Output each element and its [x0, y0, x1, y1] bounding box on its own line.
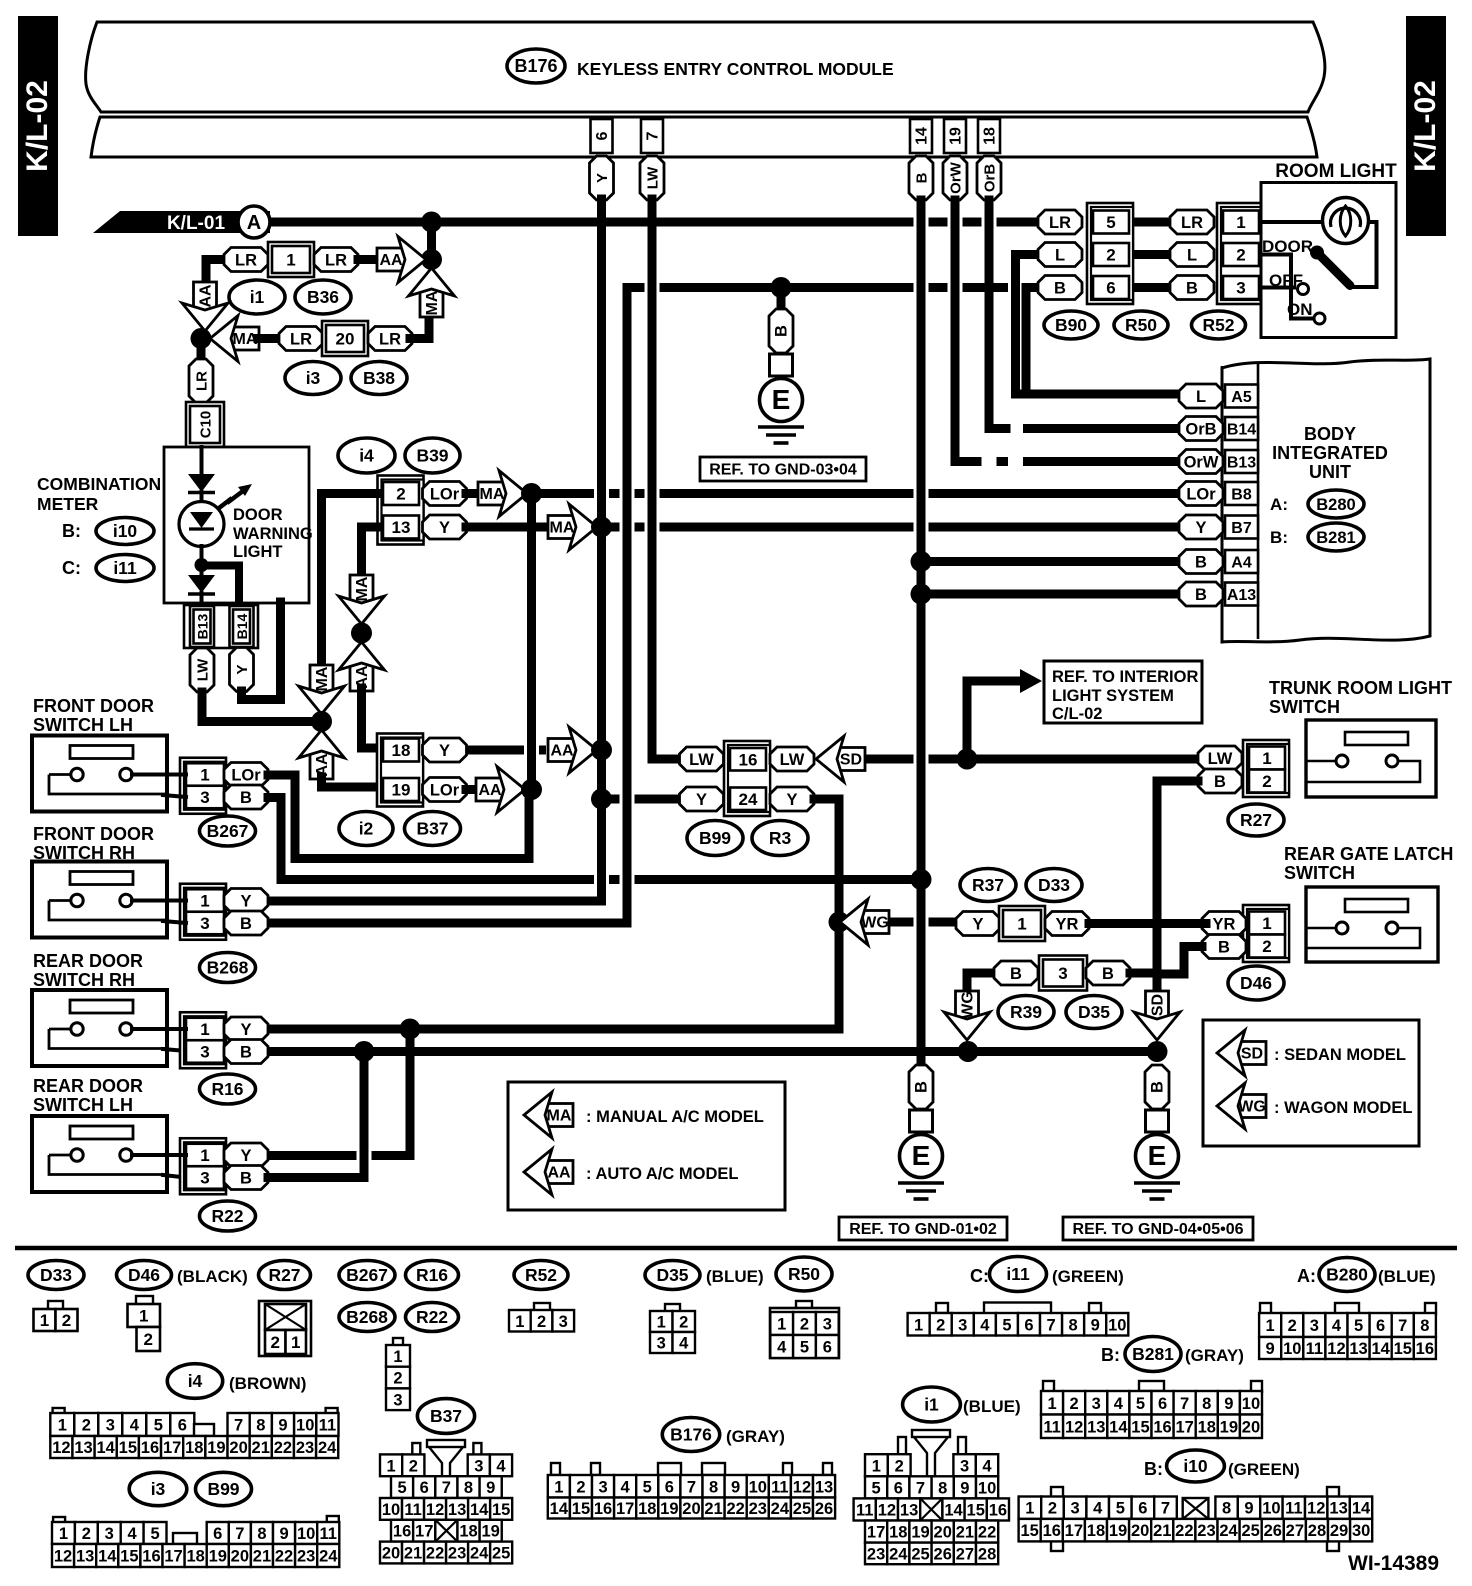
wire pin19 OrW vertical [955, 200, 972, 462]
svg-text:1: 1 [387, 1457, 396, 1475]
junction dot [591, 789, 612, 810]
svg-text:1: 1 [1017, 915, 1026, 934]
label i1 [903, 1387, 961, 1422]
ground E gnd-03-04 [769, 309, 793, 353]
connector i11 [936, 1303, 948, 1313]
wire LOr B267 riser [295, 777, 529, 859]
svg-text:B280: B280 [1316, 496, 1355, 514]
wire [410, 318, 429, 339]
svg-text:B268: B268 [346, 1307, 388, 1327]
arrow MA up [420, 289, 443, 317]
svg-text:R52: R52 [525, 1265, 557, 1285]
wire LW to chain [202, 692, 310, 722]
svg-text:YR: YR [1056, 916, 1079, 934]
svg-text:1: 1 [139, 1307, 148, 1326]
junction dot [829, 912, 850, 933]
svg-text:3: 3 [559, 1313, 568, 1331]
pin B13 [190, 606, 214, 647]
svg-text:B: B [240, 1170, 252, 1188]
wire LOr stub [268, 771, 295, 780]
svg-text:17: 17 [1175, 1418, 1193, 1436]
svg-text:LR: LR [290, 331, 312, 349]
svg-text:23: 23 [749, 1500, 767, 1518]
svg-text:SWITCH: SWITCH [1269, 697, 1340, 717]
svg-text:B:: B: [62, 521, 81, 541]
svg-text:3: 3 [598, 1478, 607, 1496]
hex B [1170, 276, 1214, 300]
svg-text:14: 14 [470, 1501, 489, 1519]
pin 18 (OrB) [978, 119, 1000, 153]
svg-text:LOr: LOr [231, 767, 261, 785]
svg-text:19: 19 [392, 781, 411, 800]
svg-text:14: 14 [944, 1501, 963, 1519]
svg-text:7: 7 [234, 1417, 243, 1435]
svg-text:13: 13 [76, 1548, 94, 1566]
svg-text:1: 1 [1262, 749, 1271, 768]
svg-text:7: 7 [1398, 1317, 1407, 1335]
switch lever [1319, 255, 1350, 286]
svg-text:B: B [240, 1044, 252, 1062]
label i2 [339, 812, 393, 846]
svg-text:B: B [240, 789, 252, 807]
svg-text:2: 2 [1106, 246, 1115, 265]
svg-text:K/L-02: K/L-02 [1409, 80, 1442, 172]
svg-text:21: 21 [956, 1524, 974, 1542]
svg-text:7: 7 [1046, 1316, 1055, 1334]
svg-text:22: 22 [426, 1545, 444, 1563]
svg-text:15: 15 [1020, 1522, 1038, 1540]
arrow SD down [1146, 991, 1169, 1019]
svg-text:MA: MA [354, 576, 371, 601]
arrow AA [548, 739, 576, 762]
svg-text:24: 24 [318, 1439, 337, 1457]
diode D2 [190, 512, 213, 528]
svg-text:25: 25 [911, 1545, 929, 1563]
label i1 [229, 280, 285, 314]
wire LW row to trunk [864, 755, 914, 764]
svg-text:7: 7 [1161, 1500, 1170, 1518]
label R16 [200, 1074, 256, 1104]
svg-text:4: 4 [128, 1525, 138, 1543]
wire to B36 [206, 260, 224, 284]
wire LR rows [1130, 218, 1171, 227]
junction dot [957, 749, 978, 770]
pin 13 [383, 516, 419, 539]
connector B90/R50 bracket [1087, 203, 1133, 304]
svg-text:18: 18 [185, 1439, 203, 1457]
hex Y vertical [230, 648, 254, 692]
svg-text:DOOR: DOOR [233, 506, 283, 524]
label i3 [285, 362, 341, 395]
svg-text:B267: B267 [207, 821, 249, 841]
svg-text:25: 25 [492, 1545, 510, 1563]
svg-text:20: 20 [229, 1439, 247, 1457]
svg-text:2: 2 [1288, 1317, 1297, 1335]
hex LW [1198, 746, 1242, 770]
svg-text:1: 1 [777, 1316, 786, 1334]
svg-text:B: B [1102, 965, 1114, 983]
arrow MA manual a/c [231, 327, 259, 350]
svg-text:D35: D35 [656, 1265, 688, 1285]
svg-text:SWITCH: SWITCH [1284, 863, 1355, 883]
label R52 [514, 1261, 568, 1290]
svg-text:19: 19 [660, 1500, 678, 1518]
svg-text:4: 4 [777, 1339, 787, 1357]
svg-text:10: 10 [1283, 1340, 1301, 1358]
wire B A4 [921, 557, 1180, 566]
wire [132, 1027, 186, 1031]
hex Y [956, 912, 1000, 936]
wire R16 B row [268, 1047, 1157, 1056]
trunk room light switch [1306, 720, 1436, 797]
svg-text:16: 16 [989, 1501, 1007, 1519]
svg-text:INTEGRATED: INTEGRATED [1272, 443, 1388, 463]
label R22 [200, 1201, 256, 1231]
label B36 [295, 280, 351, 314]
svg-text:R50: R50 [1125, 315, 1157, 335]
pin 2 [383, 482, 419, 505]
svg-text:SD: SD [840, 752, 862, 769]
svg-text:16: 16 [594, 1500, 612, 1518]
svg-text:i4: i4 [359, 446, 374, 466]
BIU pin B13 [1225, 450, 1258, 473]
svg-text:(BLUE): (BLUE) [706, 1267, 764, 1286]
svg-text:B14: B14 [234, 613, 250, 639]
arrow MA down [310, 665, 333, 693]
hex B [1086, 961, 1130, 985]
svg-text:B:: B: [1270, 528, 1288, 547]
svg-text:2: 2 [396, 485, 405, 504]
connector D35 [665, 1304, 680, 1313]
svg-text:28: 28 [1308, 1522, 1326, 1540]
label R39 [998, 996, 1054, 1029]
pin 24 [730, 788, 766, 811]
svg-text:17: 17 [163, 1439, 181, 1457]
svg-text:10: 10 [749, 1478, 767, 1496]
svg-text:R27: R27 [1240, 810, 1272, 830]
svg-text:Y: Y [240, 1147, 251, 1165]
svg-text:B8: B8 [1231, 487, 1252, 504]
svg-text:7: 7 [1180, 1395, 1189, 1413]
svg-text:19: 19 [1220, 1418, 1238, 1436]
svg-text:LOr: LOr [430, 486, 460, 504]
svg-text:B90: B90 [1055, 315, 1087, 335]
svg-text:Y: Y [696, 791, 707, 809]
label B99 [196, 1472, 252, 1505]
label R27 [259, 1261, 311, 1290]
hex LW left [680, 747, 724, 771]
svg-text:16: 16 [142, 1548, 160, 1566]
svg-text:MA: MA [314, 666, 331, 691]
svg-text:17: 17 [867, 1524, 885, 1542]
svg-text:27: 27 [956, 1545, 974, 1563]
svg-text:Y: Y [240, 1021, 251, 1039]
ref box interior light system [1044, 661, 1202, 723]
svg-text:B: B [913, 1081, 931, 1093]
wire pin14 B vertical [917, 200, 926, 1070]
pin 1 [1249, 912, 1285, 935]
svg-text:12: 12 [54, 1548, 72, 1566]
svg-text:B: B [1186, 280, 1198, 298]
svg-text:E: E [772, 384, 791, 415]
wire Y jog [242, 602, 281, 700]
svg-text:LW: LW [780, 751, 805, 769]
diode D3 [188, 575, 215, 593]
label B268 [339, 1303, 395, 1332]
hex YR [1202, 912, 1246, 936]
svg-text:6: 6 [1106, 279, 1115, 298]
wire chain B to pin19 [322, 777, 380, 787]
arrow AA up [310, 751, 333, 779]
connector B176 pinout [551, 1463, 560, 1475]
wire [1130, 969, 1157, 978]
svg-text:2: 2 [82, 1417, 91, 1435]
label B39 [405, 438, 460, 473]
svg-text:AA: AA [550, 743, 574, 760]
svg-text:R39: R39 [1010, 1002, 1042, 1022]
pin 1 [1223, 211, 1259, 234]
svg-text:1: 1 [554, 1478, 563, 1496]
wire R22 Y riser [406, 1029, 415, 1156]
svg-text:14: 14 [550, 1500, 569, 1518]
junction dot [911, 869, 932, 890]
svg-text:(BROWN): (BROWN) [229, 1374, 306, 1393]
arrow MA [478, 482, 506, 505]
svg-text:14: 14 [1352, 1500, 1371, 1518]
svg-text:(BLACK): (BLACK) [177, 1267, 248, 1286]
svg-text:LOr: LOr [1186, 486, 1216, 504]
svg-text:i1: i1 [250, 287, 265, 307]
svg-text:18: 18 [1198, 1418, 1216, 1436]
svg-text:10: 10 [978, 1479, 996, 1497]
svg-text:B268: B268 [207, 958, 249, 978]
svg-text:i4: i4 [188, 1371, 203, 1391]
pin 6 (Y) [591, 119, 613, 153]
junction dot [771, 277, 792, 298]
contact OFF [1298, 284, 1309, 295]
label R22 [406, 1303, 459, 1332]
svg-text:19: 19 [948, 127, 965, 145]
wire B stub [268, 793, 281, 802]
diode D1 [188, 474, 215, 492]
svg-text:5: 5 [1002, 1316, 1011, 1334]
legend arrow AA [545, 1161, 573, 1184]
svg-text:WG: WG [1238, 1099, 1266, 1116]
svg-text:OrB: OrB [982, 164, 999, 193]
svg-text:17: 17 [415, 1523, 433, 1541]
svg-text:26: 26 [815, 1500, 833, 1518]
svg-text:3: 3 [200, 788, 209, 807]
connector B281 [1043, 1381, 1054, 1392]
svg-text:1: 1 [515, 1313, 524, 1331]
svg-text:A5: A5 [1231, 389, 1252, 406]
wire Y row to B7 [602, 523, 620, 532]
svg-text:R27: R27 [268, 1265, 300, 1285]
svg-text:i3: i3 [151, 1479, 166, 1499]
keyless entry control module B176 band [86, 22, 1325, 112]
svg-text:1: 1 [1266, 1317, 1275, 1335]
svg-text:METER: METER [37, 494, 99, 514]
svg-text:15: 15 [492, 1501, 510, 1519]
svg-text:11: 11 [1285, 1500, 1302, 1518]
svg-text:13: 13 [1329, 1500, 1347, 1518]
label B37 [405, 812, 461, 846]
svg-text:6: 6 [178, 1417, 187, 1435]
svg-text:13: 13 [448, 1501, 466, 1519]
svg-text:15: 15 [120, 1548, 138, 1566]
svg-text:29: 29 [1330, 1522, 1348, 1540]
svg-text:7: 7 [442, 1479, 451, 1497]
legend box [508, 1082, 785, 1210]
svg-text:KEYLESS ENTRY CONTROL MODULE: KEYLESS ENTRY CONTROL MODULE [577, 59, 894, 79]
svg-text:Y: Y [439, 742, 450, 760]
connector i1 pinout [898, 1437, 906, 1455]
svg-text:3: 3 [657, 1335, 666, 1353]
svg-text:2: 2 [895, 1457, 904, 1475]
pin 2 [1249, 770, 1285, 793]
wire R16 Y row [268, 1025, 410, 1034]
wire [132, 1153, 186, 1157]
label B176 [662, 1418, 719, 1452]
label R27 [1228, 804, 1284, 836]
svg-text:20: 20 [382, 1545, 400, 1563]
svg-text:16: 16 [1153, 1418, 1171, 1436]
wire [466, 746, 524, 755]
connector B280 [1260, 1303, 1271, 1314]
svg-text:15: 15 [1394, 1340, 1412, 1358]
connector R27 bracket [1243, 740, 1289, 797]
svg-text:5: 5 [872, 1479, 881, 1497]
svg-text:4: 4 [679, 1335, 689, 1353]
wire [466, 523, 546, 532]
wire [258, 334, 281, 343]
wire A main [270, 218, 914, 227]
svg-text:18: 18 [638, 1500, 656, 1518]
svg-text:D33: D33 [1038, 875, 1070, 895]
svg-text:6: 6 [894, 1479, 903, 1497]
svg-text:16: 16 [393, 1523, 411, 1541]
hex B [994, 961, 1038, 985]
svg-text:AA: AA [547, 1165, 571, 1182]
wire [597, 527, 606, 750]
hex B [1202, 935, 1246, 959]
svg-text:SWITCH RH: SWITCH RH [33, 970, 135, 990]
svg-text:(GRAY): (GRAY) [1185, 1346, 1244, 1365]
pin 5 [1093, 211, 1129, 234]
svg-text:D46: D46 [1240, 973, 1272, 993]
meter connector bracket [184, 605, 258, 648]
junction dot [400, 1019, 421, 1040]
wire R22 B riser [268, 1052, 364, 1178]
svg-text:1: 1 [286, 251, 295, 270]
svg-text:K/L-01: K/L-01 [167, 213, 226, 234]
BIU pin B7 [1225, 516, 1258, 539]
pin 7 (LW) [641, 119, 663, 153]
svg-text:i11: i11 [1006, 1264, 1030, 1284]
svg-text:20: 20 [231, 1548, 249, 1566]
svg-text:2: 2 [1262, 772, 1271, 791]
svg-text:(GREEN): (GREEN) [1228, 1460, 1300, 1479]
connector D46 bracket [1243, 905, 1289, 962]
svg-text:SD: SD [1241, 1046, 1263, 1063]
svg-text:LW: LW [645, 166, 662, 189]
svg-text:12: 12 [1327, 1340, 1345, 1358]
pin 14 (B) [910, 119, 932, 153]
svg-text:25: 25 [793, 1500, 811, 1518]
svg-text:(BLUE): (BLUE) [963, 1397, 1021, 1416]
svg-text:15: 15 [119, 1439, 137, 1457]
svg-text:REF. TO GND-04•05•06: REF. TO GND-04•05•06 [1073, 1221, 1244, 1238]
svg-text:2: 2 [800, 1316, 809, 1334]
svg-text:B36: B36 [307, 287, 339, 307]
svg-text:LIGHT SYSTEM: LIGHT SYSTEM [1052, 687, 1174, 705]
svg-text:15: 15 [572, 1500, 590, 1518]
svg-text:(GRAY): (GRAY) [726, 1427, 785, 1446]
svg-text:5: 5 [1116, 1500, 1125, 1518]
svg-text:4: 4 [1093, 1500, 1103, 1518]
junction dot [911, 551, 932, 572]
BIU pin B8 [1225, 482, 1258, 505]
svg-text:24: 24 [1219, 1522, 1238, 1540]
svg-text:11: 11 [320, 1525, 337, 1543]
svg-text:B: B [1195, 586, 1207, 604]
svg-text:B280: B280 [1326, 1265, 1368, 1285]
svg-text:R22: R22 [211, 1206, 243, 1226]
svg-text:3: 3 [1310, 1317, 1319, 1335]
ref box GND-04-05-06 [1063, 1217, 1253, 1240]
svg-text:12: 12 [878, 1501, 896, 1519]
svg-text:19: 19 [911, 1524, 929, 1542]
svg-text:A:: A: [1270, 495, 1288, 514]
label B38 [351, 362, 407, 395]
wire LR to meter [197, 339, 206, 363]
svg-text:i10: i10 [113, 521, 138, 541]
svg-text:REF. TO GND-01•02: REF. TO GND-01•02 [849, 1221, 997, 1238]
svg-text:3: 3 [1236, 279, 1245, 298]
label i3 [129, 1472, 187, 1505]
svg-text:2: 2 [62, 1311, 71, 1330]
junction dot [958, 1041, 979, 1062]
svg-text:R52: R52 [1202, 315, 1234, 335]
svg-text:12: 12 [426, 1501, 444, 1519]
svg-text:ROOM LIGHT: ROOM LIGHT [1275, 161, 1397, 182]
wire [163, 1049, 186, 1051]
connector R50 [796, 1301, 812, 1310]
junction dot [195, 558, 209, 572]
svg-text:B176: B176 [670, 1425, 712, 1445]
svg-text:7: 7 [645, 131, 662, 140]
wire A drop [427, 222, 436, 260]
svg-text:3: 3 [1071, 1500, 1080, 1518]
pin 19 (OrW) [944, 119, 966, 153]
connector R27 [259, 1301, 311, 1356]
contact ON [1314, 313, 1325, 324]
svg-text:i11: i11 [113, 558, 137, 578]
wire [597, 750, 606, 799]
svg-text:B38: B38 [363, 368, 395, 388]
legend arrow WG [1238, 1095, 1266, 1118]
svg-text:R3: R3 [769, 828, 792, 848]
svg-text:2: 2 [576, 1478, 585, 1496]
svg-text:22: 22 [1175, 1522, 1193, 1540]
svg-text:9: 9 [279, 1525, 288, 1543]
svg-text:13: 13 [392, 518, 411, 537]
svg-text:SWITCH LH: SWITCH LH [33, 1095, 133, 1115]
svg-text:2: 2 [271, 1333, 280, 1352]
svg-text:3: 3 [200, 1043, 209, 1062]
connector R52 [534, 1303, 550, 1312]
BIU pin A13 [1225, 583, 1258, 606]
